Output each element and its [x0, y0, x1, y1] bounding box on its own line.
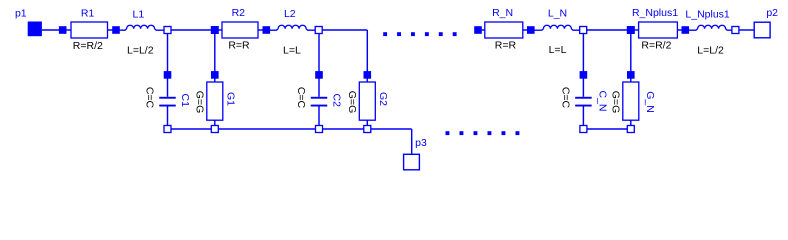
wire bottom rail right [583, 128, 630, 130]
conductance G1 [207, 82, 223, 120]
capacitor C1 [159, 97, 176, 107]
wire C1 to bottom rail [167, 107, 169, 126]
ellipsis dots bottom line [446, 131, 520, 135]
wire nodeN to junction G_N [587, 29, 627, 31]
svg-text:L1: L1 [133, 9, 145, 21]
pin C_N.1 [580, 71, 588, 79]
svg-text:C=C: C=C [295, 87, 307, 109]
wire R_Nplus1 lead to pin2 [677, 29, 681, 31]
svg-text:L=L/2: L=L/2 [697, 45, 724, 57]
svg-text:R=R: R=R [495, 40, 517, 52]
pin R1.2 [112, 26, 120, 34]
wire G1 to bottom rail [214, 120, 216, 126]
wire node to p2 [739, 29, 754, 31]
svg-text:L_Nplus1: L_Nplus1 [685, 8, 730, 20]
wire corner down to G2 [366, 30, 368, 82]
resistor R2 [222, 22, 258, 38]
pin C2.1 [315, 71, 323, 79]
node after L1 [164, 27, 171, 34]
wire node down to capacitor C2 [318, 34, 320, 97]
port p2 [754, 22, 770, 38]
svg-text:R=R: R=R [228, 40, 250, 52]
pin G2.1 [364, 71, 372, 79]
svg-text:L=L/2: L=L/2 [127, 44, 154, 56]
port p3 [404, 154, 420, 170]
wire C2 to bottom rail [318, 107, 320, 126]
conductance G2 [359, 82, 375, 120]
pin G1.1 [211, 71, 219, 79]
svg-text:L=L: L=L [283, 44, 301, 56]
node C2 bottom [316, 126, 323, 133]
wire bottom rail left [168, 128, 412, 130]
node after L2 [315, 27, 322, 34]
svg-text:G_N: G_N [644, 91, 656, 113]
svg-text:p3: p3 [415, 137, 427, 149]
wire junction to R2 [218, 29, 222, 31]
pin C1.1 [164, 71, 172, 79]
inductor L_Nplus1 [689, 25, 732, 30]
wire junction down to G1 [214, 34, 216, 83]
pin R_N.2 [527, 26, 535, 34]
wire R_N pin1 lead [482, 29, 485, 31]
svg-text:p1: p1 [15, 8, 27, 20]
node C_N bottom [580, 126, 587, 133]
wire R1 pin1 lead [66, 29, 71, 31]
svg-text:R_N: R_N [492, 7, 513, 19]
wire G2 to bottom rail [366, 120, 368, 126]
pin R1.1 [59, 26, 67, 34]
wire R1 lead to pin2 [108, 29, 113, 31]
wire node2 to corner [322, 29, 367, 31]
inductor L_N [534, 25, 579, 30]
wire node1 to junction G1 [171, 29, 211, 31]
inductor L1 [120, 25, 165, 30]
wire R2 lead to pin2 [258, 29, 263, 31]
svg-text:R2: R2 [232, 7, 246, 19]
svg-text:G=G: G=G [609, 91, 621, 113]
node G1 bottom [211, 126, 218, 133]
node G2 bottom [364, 126, 371, 133]
wire p1 to R1 pin1 [42, 29, 59, 31]
wire node down to capacitor C_N [582, 34, 584, 97]
port p1 [28, 22, 42, 37]
resistor R_N [485, 22, 523, 38]
resistor R1 [71, 22, 108, 38]
wire junction down to G_N [630, 34, 632, 83]
capacitor C2 [311, 97, 328, 107]
svg-text:C=C: C=C [559, 87, 571, 109]
svg-text:L_N: L_N [548, 8, 567, 20]
node C1 bottom [164, 126, 171, 133]
svg-text:G=G: G=G [193, 91, 205, 113]
junction node at R2 input [211, 26, 219, 34]
svg-text:R1: R1 [81, 8, 95, 20]
svg-text:G=G: G=G [346, 91, 358, 113]
junction node at R_Nplus1 input [627, 26, 635, 34]
svg-text:G1: G1 [225, 92, 237, 106]
conductance G_N [623, 82, 639, 120]
svg-text:C2: C2 [331, 93, 343, 107]
pin R_N.1 [474, 26, 482, 34]
pin R_Nplus1.2 [682, 26, 690, 34]
svg-text:R=R/2: R=R/2 [641, 40, 671, 52]
svg-text:C=C: C=C [144, 87, 156, 109]
wire C_N to bottom rail [582, 107, 584, 126]
resistor R_Nplus1 [639, 22, 678, 38]
inductor L2 [270, 25, 315, 30]
wire G_N to bottom rail [630, 120, 632, 126]
node after L_N [580, 27, 587, 34]
wire R_N lead to pin2 [523, 29, 527, 31]
svg-text:L=L: L=L [549, 44, 567, 56]
svg-text:C1: C1 [179, 93, 191, 107]
node G_N bottom [627, 126, 634, 133]
capacitor C_N [575, 97, 592, 107]
pin R2.2 [263, 26, 271, 34]
svg-text:G2: G2 [377, 92, 389, 106]
svg-text:L2: L2 [284, 8, 296, 20]
wire node down to capacitor C1 [167, 34, 169, 97]
wire junction to R_Nplus1 [634, 29, 638, 31]
ellipsis dots top line [383, 32, 456, 36]
svg-text:R_Nplus1: R_Nplus1 [632, 7, 678, 19]
wire down to p3 [411, 129, 413, 154]
svg-text:R=R/2: R=R/2 [73, 40, 103, 52]
svg-text:p2: p2 [766, 7, 778, 19]
pin G_N.1 [627, 71, 635, 79]
svg-text:C_N: C_N [597, 90, 609, 111]
node after L_Nplus1 [732, 27, 739, 34]
